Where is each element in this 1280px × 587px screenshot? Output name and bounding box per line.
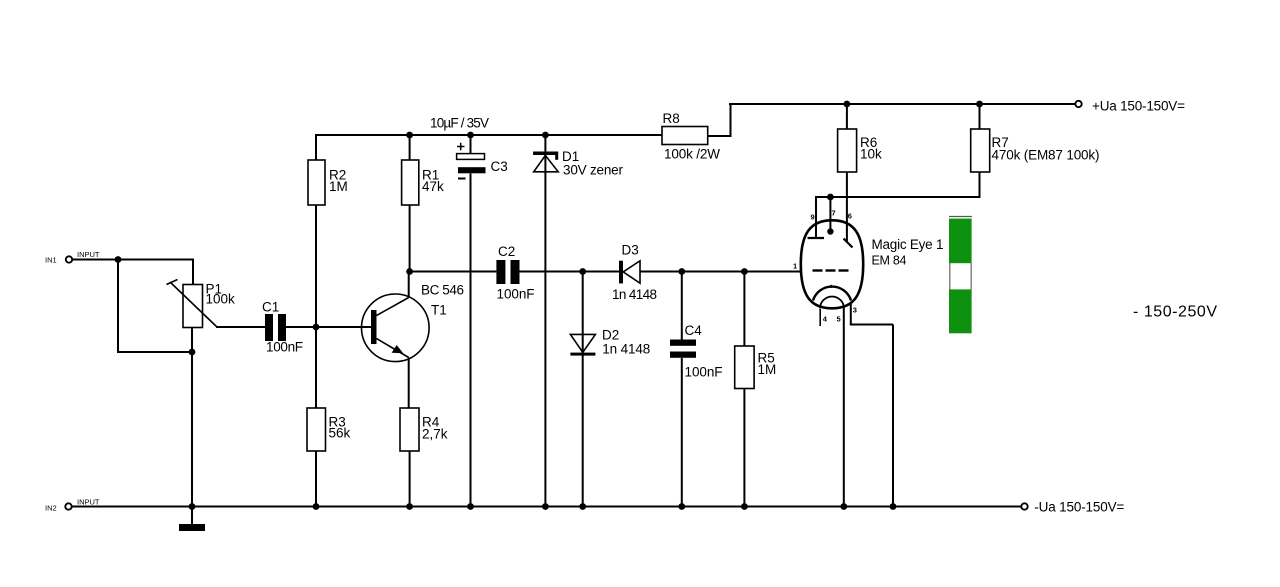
svg-text:D3: D3 bbox=[622, 243, 639, 258]
svg-text:1n 4148: 1n 4148 bbox=[602, 342, 650, 357]
svg-text:10k: 10k bbox=[860, 147, 882, 162]
svg-text:INPUT: INPUT bbox=[77, 250, 100, 259]
svg-text:IN1: IN1 bbox=[45, 256, 57, 265]
svg-text:+Ua 150-150V=: +Ua 150-150V= bbox=[1092, 99, 1185, 114]
svg-text:1n 4148: 1n 4148 bbox=[612, 287, 657, 302]
svg-text:2,7k: 2,7k bbox=[422, 427, 448, 442]
svg-text:INPUT: INPUT bbox=[77, 498, 100, 507]
svg-text:C3: C3 bbox=[491, 159, 508, 174]
svg-text:D2: D2 bbox=[602, 328, 619, 343]
svg-text:Magic Eye 1: Magic Eye 1 bbox=[872, 237, 944, 252]
svg-text:C2: C2 bbox=[498, 244, 515, 259]
svg-text:C4: C4 bbox=[685, 323, 703, 338]
svg-text:IN2: IN2 bbox=[45, 504, 57, 513]
svg-text:100nF: 100nF bbox=[266, 340, 303, 355]
svg-text:R8: R8 bbox=[663, 111, 680, 126]
svg-text:3: 3 bbox=[853, 306, 857, 315]
svg-text:T1: T1 bbox=[431, 303, 447, 318]
svg-text:30V zener: 30V zener bbox=[563, 163, 624, 178]
svg-text:5: 5 bbox=[837, 315, 841, 324]
svg-text:100nF: 100nF bbox=[685, 365, 723, 380]
svg-text:100k: 100k bbox=[206, 292, 236, 307]
svg-text:- 150-250V: - 150-250V bbox=[1133, 304, 1217, 321]
svg-text:7: 7 bbox=[832, 209, 836, 218]
svg-text:C1: C1 bbox=[262, 300, 279, 315]
svg-text:100nF: 100nF bbox=[497, 287, 535, 302]
svg-text:1: 1 bbox=[793, 262, 797, 271]
svg-text:BC 546: BC 546 bbox=[421, 283, 464, 298]
svg-text:9: 9 bbox=[811, 213, 815, 222]
svg-text:6: 6 bbox=[848, 212, 852, 221]
svg-text:47k: 47k bbox=[422, 179, 444, 194]
svg-text:100k /2W: 100k /2W bbox=[664, 147, 720, 162]
svg-text:EM 84: EM 84 bbox=[872, 254, 907, 268]
svg-text:10µF / 35V: 10µF / 35V bbox=[430, 116, 489, 131]
svg-text:1M: 1M bbox=[758, 362, 777, 377]
svg-text:1M: 1M bbox=[329, 179, 348, 194]
svg-text:56k: 56k bbox=[329, 426, 351, 441]
svg-text:470k (EM87 100k): 470k (EM87 100k) bbox=[992, 148, 1100, 163]
svg-text:-Ua 150-150V=: -Ua 150-150V= bbox=[1034, 500, 1124, 515]
